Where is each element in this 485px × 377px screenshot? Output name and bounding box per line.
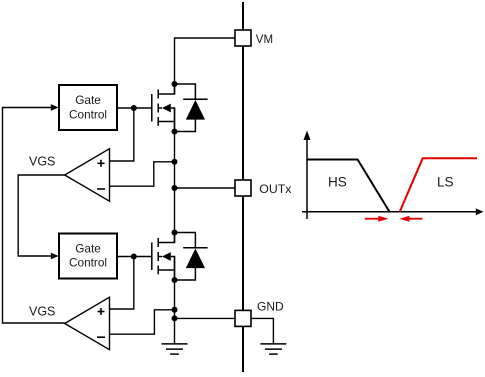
- svg-text:VM: VM: [256, 34, 273, 46]
- svg-text:VGS: VGS: [29, 304, 55, 318]
- svg-text:Control: Control: [69, 107, 107, 121]
- svg-text:GND: GND: [257, 300, 284, 314]
- svg-text:VGS: VGS: [29, 155, 55, 169]
- svg-text:LS: LS: [437, 175, 454, 190]
- svg-text:Control: Control: [69, 256, 107, 270]
- svg-text:OUTx: OUTx: [259, 182, 292, 196]
- svg-text:HS: HS: [328, 175, 347, 190]
- svg-text:Gate: Gate: [75, 93, 101, 107]
- svg-text:Gate: Gate: [75, 241, 101, 255]
